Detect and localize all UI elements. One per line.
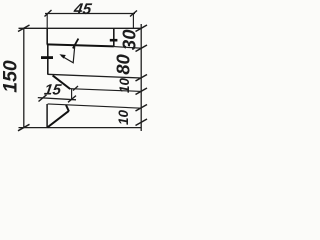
diagonal bottom edge (lower) [47, 111, 68, 128]
chain tick y78 [136, 75, 148, 82]
chain tick y91.5 [136, 88, 148, 95]
leader arrowhead [59, 54, 65, 58]
tick top of 150-dim [18, 25, 30, 32]
right chain dimension line [140, 24, 142, 131]
chain extension line from lower step corner y88-91 [70, 89, 141, 92]
15 dimension line [38, 98, 76, 100]
top edge line (extends to both dim chains) [19, 27, 142, 29]
dimension line 45 (top) [45, 13, 135, 15]
profile left edge (bottom part) [46, 104, 48, 127]
steep drop at bottom shelf right end [66, 105, 69, 111]
break dash on right edge [110, 39, 118, 42]
tick left end of 45-dim [45, 10, 52, 17]
svg-text:45: 45 [72, 1, 93, 18]
chain tick y122.5 [136, 119, 148, 126]
break dash on left edge [41, 56, 53, 59]
small tick on that line [73, 86, 78, 91]
profile right edge (top part) [113, 28, 115, 46]
profile top-part bottom surface (thick) [47, 44, 114, 46]
profile left edge (top part) [46, 28, 48, 45]
chain tick y108 [136, 105, 148, 112]
chain extension / step surface line y74-78 [48, 74, 142, 78]
profile left edge (middle part) [47, 45, 49, 75]
svg-text:15: 15 [43, 82, 63, 99]
tick right end of 45-dim [130, 11, 137, 17]
bottom edge line [19, 127, 142, 129]
svg-text:10: 10 [116, 110, 131, 126]
witness line left (45-dim to profile corner) [46, 14, 48, 29]
chain tick y28 [136, 25, 148, 32]
tick bottom of 150-dim [18, 124, 30, 131]
label 1 (callout digit drawn as slash) [73, 39, 79, 49]
diagonal step edge (upper) [53, 75, 71, 89]
chain extension line y48 (from profile right edge) [114, 47, 141, 49]
svg-text:150: 150 [0, 60, 22, 93]
chain extension line from bottom shelf y104-108 [48, 104, 142, 108]
left dimension line 150 [23, 28, 25, 128]
chain tick y48 [136, 45, 148, 52]
leader line from label 1 [62, 46, 75, 63]
tick right of 15-dim [68, 96, 76, 103]
witness line right (45-dim down to top edge) [132, 14, 134, 29]
svg-text:80: 80 [113, 54, 134, 75]
witness line for 15-dim (from step corner) [71, 88, 73, 99]
tick left of 15-dim [39, 95, 47, 102]
